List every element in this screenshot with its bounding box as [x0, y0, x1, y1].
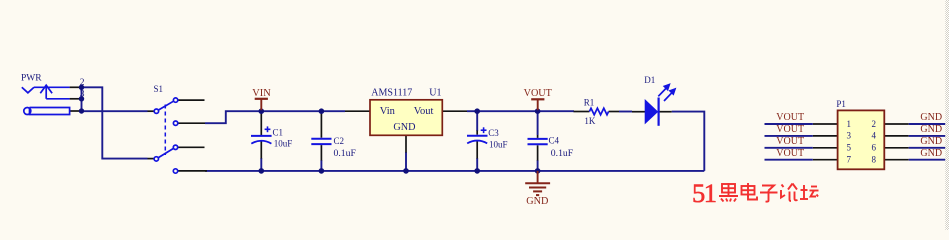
svg-text:0.1uF: 0.1uF	[551, 148, 574, 159]
svg-text:10uF: 10uF	[489, 140, 508, 150]
svg-text:VOUT: VOUT	[524, 88, 553, 99]
svg-text:4: 4	[872, 131, 877, 141]
svg-text:1K: 1K	[584, 116, 596, 126]
svg-text:AMS1117: AMS1117	[371, 87, 412, 98]
svg-text:GND: GND	[920, 124, 942, 135]
svg-text:51: 51	[692, 178, 716, 208]
svg-text:2: 2	[80, 78, 85, 88]
svg-text:5: 5	[847, 143, 852, 153]
svg-text:2: 2	[872, 119, 877, 129]
svg-text:Vout: Vout	[414, 106, 434, 117]
svg-text:C4: C4	[549, 136, 560, 146]
svg-text:GND: GND	[920, 148, 942, 159]
svg-text:3: 3	[80, 90, 85, 100]
svg-text:10uF: 10uF	[274, 138, 293, 148]
svg-text:0.1uF: 0.1uF	[334, 148, 357, 159]
svg-text:PWR: PWR	[21, 74, 42, 84]
svg-text:GND: GND	[393, 122, 415, 133]
svg-text:GND: GND	[526, 196, 548, 207]
svg-text:1: 1	[847, 119, 852, 129]
svg-text:8: 8	[872, 155, 877, 165]
svg-text:S1: S1	[154, 84, 164, 94]
svg-text:VOUT: VOUT	[776, 136, 804, 147]
svg-text:7: 7	[847, 155, 852, 165]
svg-text:C2: C2	[334, 136, 345, 146]
svg-text:6: 6	[872, 143, 877, 153]
svg-text:R1: R1	[584, 98, 595, 108]
svg-text:VOUT: VOUT	[776, 124, 804, 135]
svg-text:VIN: VIN	[252, 88, 271, 99]
svg-text:GND: GND	[920, 136, 942, 147]
svg-text:C1: C1	[273, 128, 284, 138]
svg-text:GND: GND	[920, 112, 942, 123]
svg-text:Vin: Vin	[380, 106, 396, 117]
svg-text:U1: U1	[429, 87, 441, 98]
svg-text:P1: P1	[836, 99, 846, 109]
svg-text:D1: D1	[644, 75, 655, 85]
svg-text:VOUT: VOUT	[776, 112, 804, 123]
svg-text:VOUT: VOUT	[776, 148, 804, 159]
svg-text:C3: C3	[488, 128, 499, 138]
svg-text:3: 3	[847, 131, 852, 141]
